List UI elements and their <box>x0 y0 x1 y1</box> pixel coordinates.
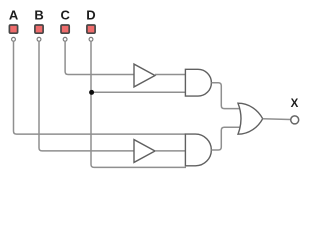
wire: buffer U1 output to AND1 top pin <box>155 74 185 76</box>
buffer U2 (triangle, B path) <box>134 140 155 163</box>
wire: OR output to terminal X <box>263 118 291 121</box>
svg-text:C: C <box>61 8 71 23</box>
input terminal A <box>12 37 16 41</box>
AND gate U4 (3-input, bottom) <box>185 134 211 166</box>
input switch C (red square) <box>61 25 69 33</box>
wire D: down to bottom then right to AND2 bottom pin <box>91 42 186 168</box>
svg-text:B: B <box>34 8 43 23</box>
wire B: down then right to buffer U2 input <box>39 42 134 151</box>
svg-text:A: A <box>9 8 19 23</box>
junction dot on wire D <box>89 90 94 95</box>
input switch D (red square) <box>87 25 95 33</box>
input terminal B <box>37 37 41 41</box>
wire: buffer U2 output to AND2 middle pin <box>155 150 185 152</box>
wire: AND1 output right, down, right to OR top input <box>211 83 240 109</box>
AND gate U3 (2-input, top) <box>185 69 211 96</box>
buffer U1 (triangle, C path) <box>134 64 155 87</box>
OR gate U5 <box>238 103 263 134</box>
output terminal X (circle) <box>291 116 299 124</box>
wire C: down then right to buffer U1 input <box>65 42 134 75</box>
wire D branch: junction right to AND1 bottom pin <box>91 91 185 93</box>
input switch A (red square) <box>9 25 17 33</box>
input terminal D <box>89 37 93 41</box>
svg-text:X: X <box>291 98 299 110</box>
wire A: down then right to AND2 top pin <box>14 42 186 135</box>
input switch B (red square) <box>35 25 43 33</box>
svg-text:D: D <box>86 8 95 23</box>
input terminal C <box>63 37 67 41</box>
wire: AND2 output right, up, right to OR bottom input <box>211 127 240 150</box>
